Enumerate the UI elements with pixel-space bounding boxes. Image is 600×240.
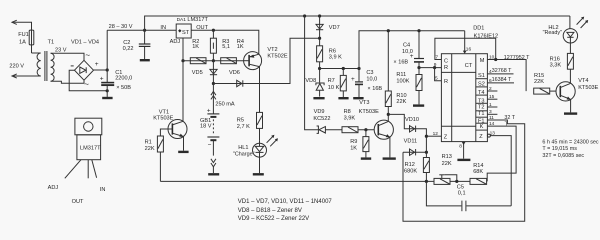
ground of R9	[361, 157, 371, 159]
diode VD10 (pointing right)	[410, 126, 416, 132]
svg-text:DA1: DA1	[177, 17, 187, 23]
wire secondary bottom to bridge	[51, 80, 84, 83]
wire 220V lower lead with arrow	[12, 74, 41, 78]
svg-text:VT4: VT4	[578, 78, 588, 84]
wire OUT rail	[191, 30, 259, 54]
svg-text:FU1: FU1	[18, 32, 29, 38]
wire VT2 collector down	[259, 67, 261, 113]
label C3 10,0 x16B	[366, 70, 382, 92]
svg-text:16384 T: 16384 T	[492, 77, 512, 83]
svg-text:22K: 22K	[442, 161, 452, 167]
wire VT4 emitter to ground	[570, 99, 572, 112]
svg-text:KT503E: KT503E	[153, 116, 173, 122]
label R5 2,7K	[237, 117, 250, 130]
svg-text:Z: Z	[444, 135, 448, 141]
svg-text:VT3: VT3	[359, 100, 369, 106]
junction C2 tap	[143, 29, 146, 32]
resistor R8 (horizontal)	[342, 127, 358, 133]
svg-text:VD6: VD6	[229, 70, 240, 76]
ground of VT1	[178, 151, 188, 153]
svg-text:3,3K: 3,3K	[550, 63, 562, 69]
junction bridge plus	[106, 68, 109, 71]
label R15 22K	[534, 73, 544, 85]
svg-text:VD9 – KC522 – Zener 22V: VD9 – KC522 – Zener 22V	[238, 216, 309, 222]
wire VD10 branch	[388, 114, 426, 152]
wire pin 11 F1 output	[403, 120, 525, 221]
wire VT3 collector up	[387, 107, 389, 122]
svg-text:VD1 – VD7, VD10, VD11 – 1N4007: VD1 – VD7, VD10, VD11 – 1N4007	[238, 199, 333, 205]
pin 8 ground arrow	[462, 142, 466, 159]
svg-text:R13: R13	[442, 154, 452, 160]
wire ADJ pin down	[182, 38, 184, 61]
node - (bridge minus mark)	[71, 65, 74, 67]
label VD9 KC522	[313, 109, 330, 122]
wire R15 to VT4 base	[550, 90, 556, 92]
wire 220V upper lead with arrow	[12, 20, 32, 53]
resistor R5 (vertical)	[257, 112, 263, 140]
wire VT1 emitter to ground	[183, 137, 185, 151]
LED HL2 arrows	[577, 17, 589, 28]
label HL1 "Charge"	[233, 145, 255, 158]
junction R12 / C5 on rail	[425, 180, 428, 183]
wire pin 4 S1	[487, 73, 513, 75]
svg-text:32768 T: 32768 T	[492, 68, 512, 74]
resistor R9 (vertical)	[363, 130, 369, 158]
svg-text:28 – 30 V: 28 – 30 V	[109, 24, 133, 30]
transistor VT1 KT503E (NPN)	[168, 61, 187, 139]
svg-text:10 K: 10 K	[328, 85, 340, 91]
svg-text:23 V: 23 V	[55, 48, 67, 54]
svg-text:5,1: 5,1	[222, 44, 230, 50]
junction VT3 collector / VD10 branch	[387, 113, 390, 116]
svg-text:ADJ: ADJ	[48, 185, 59, 191]
wire 250mA arrow marks	[211, 91, 216, 99]
svg-text:CT: CT	[465, 63, 473, 69]
wire R8 to VT3 base	[358, 129, 374, 131]
resistor R16 (vertical)	[567, 53, 573, 83]
svg-text:13: 13	[490, 130, 496, 136]
svg-text:0,1: 0,1	[458, 191, 466, 197]
resistor R7 (vertical)	[340, 69, 346, 98]
resistor R11 (vertical)	[416, 68, 422, 105]
label ST inside DA1	[178, 29, 190, 36]
svg-text:S2: S2	[478, 81, 485, 87]
diode VD11 (pointing right)	[410, 149, 416, 155]
wire VD6 line to VD7 node	[213, 38, 319, 83]
svg-text:VD9: VD9	[314, 109, 325, 115]
wire C4 node to pin 9	[419, 67, 441, 69]
svg-text:~: ~	[84, 80, 89, 89]
bridge rectifier VD1-VD4 diamond	[75, 60, 94, 80]
resistor R3 (vertical, 1W mark)	[210, 30, 216, 61]
svg-text:S1: S1	[478, 73, 485, 79]
zener VD8 (pointing up)	[316, 83, 324, 97]
fuse FU1	[29, 30, 34, 45]
resistor R14 (horizontal)	[470, 178, 487, 184]
junction R6 bottom (+9V node)	[318, 67, 321, 70]
svg-text:M: M	[480, 58, 485, 64]
svg-text:~: ~	[85, 51, 90, 60]
svg-text:× 50B: × 50B	[116, 85, 131, 91]
junction C4 bottom / R pins	[417, 66, 420, 69]
label R13 22K	[442, 154, 452, 167]
svg-text:R11: R11	[396, 72, 406, 78]
svg-text:+: +	[95, 61, 99, 68]
wire pin 3 T1 stub	[487, 113, 497, 115]
ground of VT3	[383, 157, 396, 159]
wire pin 12	[426, 135, 441, 137]
svg-text:R1: R1	[145, 140, 152, 146]
svg-text:KT503E: KT503E	[359, 109, 379, 115]
svg-text:VD1 – VD4: VD1 – VD4	[71, 39, 99, 45]
label C4 10,0 x16B	[393, 43, 412, 66]
resistor R6 (vertical)	[317, 46, 323, 83]
svg-text:100K: 100K	[396, 78, 409, 84]
svg-text:5: 5	[435, 75, 438, 81]
junction R9 top	[364, 128, 367, 131]
junction top rail / VD9 rail	[303, 14, 306, 17]
svg-text:VD11: VD11	[404, 138, 418, 144]
diode VD7 (pointing down)	[316, 16, 323, 46]
label C2 0,22	[123, 40, 134, 52]
LM317T package drawing (TO-220)	[65, 118, 102, 178]
junction R10 top on supply line	[387, 29, 390, 32]
svg-text:T = 19,015 ms: T = 19,015 ms	[542, 146, 577, 152]
wire battery more-cells arrows	[211, 159, 216, 173]
bridge inner diode	[80, 67, 86, 73]
resistor R2 (horizontal)	[190, 58, 206, 64]
svg-text:"Charge": "Charge"	[233, 152, 255, 158]
svg-text:220 V: 220 V	[9, 63, 24, 69]
transformer T1 core	[45, 51, 47, 81]
svg-text:T4: T4	[478, 90, 485, 96]
ground of R7	[338, 97, 348, 99]
svg-text:K: K	[480, 124, 484, 130]
svg-text:1: 1	[489, 102, 492, 108]
resistor R12 (vertical)	[423, 152, 429, 181]
svg-text:× 16B: × 16B	[367, 86, 382, 92]
ground of GB1	[208, 173, 219, 175]
ground of HL1	[253, 173, 264, 175]
label R7 10K	[328, 78, 340, 91]
svg-text:R12: R12	[405, 162, 415, 168]
svg-text:VD10: VD10	[405, 117, 419, 123]
svg-text:10: 10	[489, 54, 495, 60]
label VT1 KT503E	[153, 109, 173, 121]
svg-text:R16: R16	[550, 56, 560, 62]
label DD1 K176IE12	[473, 25, 498, 39]
trimmer R13 (horizontal with wiper)	[434, 175, 470, 185]
svg-text:C4: C4	[403, 43, 410, 49]
svg-text:"Ready": "Ready"	[543, 30, 562, 36]
wire pin 7 feedback from M	[435, 38, 496, 59]
op-amp regulator DA1 LM317T box	[176, 24, 191, 38]
svg-text:VT1: VT1	[159, 109, 169, 115]
junction R7 top	[342, 67, 345, 70]
svg-text:1A: 1A	[19, 39, 26, 45]
label R16 3,3K	[550, 56, 562, 68]
label R4 1K	[237, 39, 244, 50]
capacitor C4	[414, 31, 424, 68]
transistor VT4 KT503E (NPN)	[556, 82, 575, 101]
capacitor C3	[355, 69, 363, 98]
svg-text:0,22: 0,22	[123, 46, 134, 52]
ground of R11	[413, 104, 424, 106]
junction VD5 top	[212, 59, 215, 62]
zener VD9 KC522 (pointing left)	[317, 126, 342, 133]
wire 28-30V rail (IN rail)	[107, 29, 176, 31]
wire secondary top to bridge	[51, 53, 84, 60]
svg-text:Z: Z	[479, 134, 483, 140]
svg-text:14: 14	[489, 121, 495, 127]
svg-text:2,7 K: 2,7 K	[237, 124, 250, 130]
label C5 0,1	[457, 184, 466, 196]
svg-text:KC522: KC522	[313, 116, 330, 122]
svg-text:C: C	[444, 58, 448, 64]
wire ADJ line	[183, 60, 244, 62]
transistor VT2 KT502E (PNP)	[244, 52, 262, 70]
svg-text:11: 11	[489, 115, 494, 121]
label FU1 1A	[18, 32, 29, 45]
label R9 1K	[350, 139, 357, 151]
label VT2 KT502E	[267, 47, 287, 59]
junction VD7 / feedback	[318, 37, 321, 40]
svg-text:3,9 K: 3,9 K	[329, 55, 342, 61]
battery GB1 18V	[207, 84, 219, 156]
svg-text:IN: IN	[100, 187, 106, 193]
junction M feedback	[494, 58, 497, 61]
junction VD11 / R12	[425, 151, 428, 154]
capacitor C5	[426, 181, 511, 211]
svg-text:22K: 22K	[534, 79, 544, 85]
diode VD5 (pointing down)	[210, 61, 217, 84]
svg-text:22K: 22K	[145, 146, 155, 152]
ground of VD8	[313, 97, 324, 99]
svg-text:2: 2	[489, 86, 492, 92]
svg-text:15: 15	[489, 94, 495, 100]
resistor R10 (vertical)	[385, 31, 391, 107]
svg-text:1K: 1K	[192, 44, 199, 50]
svg-text:R14: R14	[473, 163, 483, 169]
svg-text:R6: R6	[329, 48, 336, 54]
svg-text:VT2: VT2	[267, 47, 277, 53]
transformer T1 secondary winding	[51, 53, 55, 81]
wire VT3 emitter to ground	[389, 137, 391, 157]
svg-text:T3: T3	[478, 98, 485, 104]
ground of C1	[102, 97, 112, 99]
wire main +28V riser	[106, 30, 108, 82]
LED HL2 "Ready"	[563, 16, 577, 53]
svg-text:R8: R8	[344, 109, 351, 115]
svg-text:+: +	[351, 76, 355, 83]
wire pin 14 K output	[487, 126, 516, 181]
svg-text:10,0: 10,0	[366, 77, 377, 83]
svg-text:ST: ST	[182, 30, 190, 36]
svg-text:10,0: 10,0	[402, 49, 413, 55]
ground of C3	[353, 97, 363, 99]
wire pin 1 T2 stub	[487, 106, 497, 108]
wire +9V riser to supply line	[359, 31, 465, 69]
svg-text:LM317T: LM317T	[80, 146, 101, 152]
svg-text:7: 7	[435, 55, 438, 61]
svg-text:68K: 68K	[473, 169, 483, 175]
svg-text:1277952 T: 1277952 T	[504, 55, 530, 61]
svg-text:T1: T1	[478, 111, 485, 117]
svg-text:T1: T1	[48, 39, 55, 45]
note diodes types	[238, 199, 333, 222]
svg-text:16: 16	[466, 47, 472, 53]
svg-text:R15: R15	[534, 73, 544, 79]
svg-text:+: +	[207, 107, 211, 114]
transistor VT3 KT503E (NPN)	[374, 120, 393, 139]
pin 13 Z inverted output	[487, 134, 511, 206]
svg-text:C2: C2	[123, 40, 130, 46]
svg-text:DD1: DD1	[473, 25, 484, 31]
wire pin 6 S2	[487, 82, 514, 84]
wire bridge minus to ground rail	[69, 70, 107, 91]
counter DD1 K176IE12 box	[441, 54, 487, 142]
wire raw +28V drop to VD9	[305, 16, 319, 130]
label VT3 KT503E	[359, 100, 379, 115]
svg-text:12: 12	[433, 131, 439, 137]
ground of VT4	[564, 112, 577, 114]
wire bridge plus to C1 rail	[94, 69, 108, 71]
wire bottom rail	[160, 180, 434, 182]
svg-text:C3: C3	[366, 70, 373, 76]
junction C3 top tap	[357, 67, 360, 70]
svg-text:VD8 – D818 – Zener 8V: VD8 – D818 – Zener 8V	[238, 208, 302, 214]
junction VD5 bottom	[212, 82, 215, 85]
label R1 22K	[145, 140, 155, 152]
svg-text:VD7: VD7	[329, 25, 340, 31]
svg-text:R9: R9	[350, 139, 357, 145]
ground of C2	[140, 59, 150, 61]
label VT4 KT503E	[578, 78, 598, 91]
label R14 68K	[473, 163, 483, 175]
junction R13 wiper on rail	[455, 180, 458, 183]
ground of pin 8	[457, 159, 470, 161]
junction C1 minus	[106, 89, 109, 92]
svg-text:250 mA: 250 mA	[215, 101, 235, 107]
label R12 680K	[404, 162, 417, 175]
svg-text:VD8: VD8	[305, 78, 316, 84]
svg-text:22K: 22K	[396, 99, 406, 105]
resistor R1 (vertical)	[157, 129, 172, 181]
wire pin 10 M output	[487, 60, 526, 92]
svg-text:−: −	[208, 142, 212, 149]
wire top +28V rail	[145, 16, 570, 30]
capacitor C2	[139, 30, 151, 59]
svg-text:8: 8	[459, 143, 462, 149]
wire VD11 line	[403, 151, 426, 153]
svg-text:KT503E: KT503E	[578, 85, 598, 91]
junction pin 12 branch	[425, 135, 428, 138]
label C1 2200,0 x50B	[115, 70, 132, 91]
wire +9V node line	[320, 68, 359, 70]
svg-text:32T = 0,6085 sec: 32T = 0,6085 sec	[542, 153, 584, 159]
resistor R15 (horizontal)	[534, 88, 550, 94]
note timing	[542, 140, 598, 159]
LED HL1 "Charge"	[253, 141, 267, 174]
junction top rail / VD7	[318, 14, 321, 17]
label R6 3,9K	[329, 48, 342, 60]
svg-text:× 16B: × 16B	[393, 60, 408, 66]
svg-text:C5: C5	[457, 184, 464, 190]
capacitor C1	[101, 83, 114, 97]
svg-text:2200,0: 2200,0	[115, 75, 132, 81]
svg-text:R: R	[444, 65, 448, 71]
wire pin 15 T3 stub	[487, 98, 497, 100]
label R3 5,1	[222, 39, 230, 50]
svg-text:9: 9	[434, 62, 437, 68]
junction C4 top on supply line	[417, 29, 420, 32]
svg-text:R5: R5	[237, 117, 244, 123]
resistor R4 (horizontal)	[221, 58, 237, 64]
diode VD6 (pointing right)	[237, 80, 243, 86]
junction ADJ line left	[181, 59, 184, 62]
svg-text:IN: IN	[160, 25, 166, 31]
svg-text:3: 3	[489, 109, 492, 115]
LED HL1 arrows	[267, 135, 278, 147]
svg-text:T2: T2	[478, 105, 485, 111]
label R11 100K	[396, 72, 409, 85]
label R2 1K	[192, 39, 199, 50]
svg-text:ADJ: ADJ	[170, 39, 181, 45]
svg-text:6 h 45 min = 24300 sec: 6 h 45 min = 24300 sec	[542, 140, 598, 146]
svg-text:32 T: 32 T	[504, 115, 515, 121]
svg-text:+: +	[100, 76, 104, 83]
svg-text:1K: 1K	[350, 145, 357, 151]
junction pin5 branch	[433, 66, 436, 69]
svg-text:R: R	[444, 79, 448, 85]
wire pin 2 T4 stub	[487, 90, 497, 92]
label HL2 "Ready"	[543, 25, 562, 36]
label R10 22K	[396, 93, 406, 105]
svg-text:1K: 1K	[237, 44, 244, 50]
label R8 3,9K	[344, 109, 356, 121]
label GB1 18 V	[200, 118, 212, 130]
svg-text:OUT: OUT	[72, 199, 84, 205]
transformer T1 primary winding	[32, 53, 41, 76]
pin 16 supply arrow	[463, 31, 467, 54]
svg-text:HL1: HL1	[238, 145, 248, 151]
junction R3 top	[212, 29, 215, 32]
svg-text:LM317T: LM317T	[187, 17, 208, 23]
label DA1 LM317T	[177, 17, 209, 23]
wire pin 5 branch	[435, 68, 442, 81]
svg-text:3,9K: 3,9K	[344, 115, 356, 121]
svg-text:VD5: VD5	[192, 70, 203, 76]
svg-text:KT502E: KT502E	[267, 53, 287, 59]
svg-text:R7: R7	[328, 78, 335, 84]
svg-text:680K: 680K	[404, 169, 417, 175]
svg-text:18 V: 18 V	[200, 123, 212, 129]
